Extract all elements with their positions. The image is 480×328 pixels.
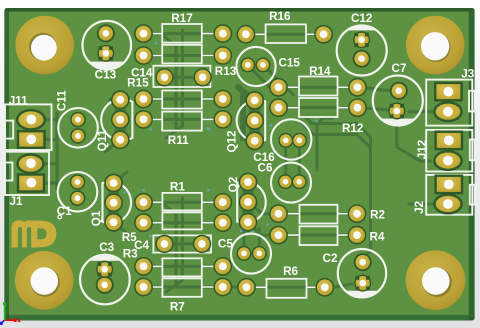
svg-text:R4: R4 (370, 230, 385, 243)
svg-text:C14: C14 (131, 66, 153, 79)
wire C16 C6 links (286, 146, 300, 176)
wire J2 stub (409, 203, 434, 206)
svg-text:R13: R13 (215, 65, 237, 78)
resistor R16 (237, 10, 334, 43)
svg-text:C4: C4 (134, 239, 149, 252)
wire Q1 pad bus (108, 183, 119, 222)
wire Q12 pad bus (249, 100, 260, 140)
svg-text:J3: J3 (461, 68, 475, 81)
svg-text:Q1: Q1 (90, 210, 103, 226)
md logo silkscreen (12, 215, 62, 247)
svg-text:C11: C11 (56, 90, 69, 111)
mounting hole top-left (15, 16, 74, 75)
capacitor C3 (electrolytic) (80, 241, 130, 304)
wire Q2 to R2 (248, 202, 279, 214)
svg-text:R2: R2 (370, 208, 385, 221)
wire R16 row (246, 33, 324, 36)
wire C15 to Q12 diagonals (247, 65, 293, 96)
wire R7 row (144, 286, 247, 289)
wire C5 links (244, 226, 259, 247)
svg-text:R11: R11 (168, 134, 189, 147)
transistor Q2 (227, 173, 266, 232)
connector J3 (426, 68, 475, 126)
svg-text:J2: J2 (413, 200, 426, 214)
wire left column vertical bus (161, 30, 183, 138)
resistor R17 (134, 12, 232, 43)
wire Q12 pour (238, 87, 254, 140)
svg-text:C1: C1 (57, 205, 72, 218)
svg-text:C13: C13 (95, 69, 117, 82)
capacitor C7 (electrolytic) (373, 62, 423, 126)
wire R12 row (279, 106, 358, 109)
svg-text:R16: R16 (269, 10, 291, 23)
resistor R2 (269, 204, 385, 223)
wire R6 to C2 (333, 284, 352, 287)
vias (123, 42, 318, 254)
svg-text:Q11: Q11 (96, 129, 109, 151)
capacitor C1 (57, 172, 98, 218)
capacitor C13 (electrolytic) (83, 21, 132, 82)
svg-text:R12: R12 (342, 122, 364, 135)
capacitor C6 (258, 162, 311, 203)
svg-text:R1: R1 (170, 180, 185, 193)
wire C7 to R12 (364, 108, 389, 110)
3d view origin axes marker (0, 302, 20, 325)
wire R6 row (247, 286, 325, 289)
wire Q2 pad bus (243, 182, 254, 222)
capacitor C16 (253, 119, 311, 164)
wire R3 row (144, 265, 223, 268)
copper traces group (42, 30, 434, 292)
wire Q11 pad bus (115, 100, 126, 140)
connector J2 (413, 175, 474, 215)
capacitor C15 (236, 47, 300, 86)
svg-text:R14: R14 (309, 65, 331, 78)
wire Q1 branch (114, 172, 128, 234)
capacitor C2 (electrolytic) (323, 249, 387, 297)
wire R4 row (279, 234, 358, 237)
wire R11 row (144, 118, 223, 121)
svg-text:C12: C12 (351, 12, 373, 25)
resistor R6 (237, 265, 334, 298)
wire R1 row (144, 201, 223, 204)
resistor R13 (134, 45, 237, 78)
wire bottom column vertical bus (161, 198, 183, 292)
connector J11 (5, 95, 52, 150)
svg-text:C2: C2 (323, 252, 338, 265)
resistor R12 (269, 98, 367, 135)
wire R12 to C2 (300, 118, 371, 259)
resistor R15 (127, 76, 232, 108)
capacitor C12 (electrolytic) (337, 12, 387, 76)
connector J12 (416, 130, 475, 172)
svg-text:J11: J11 (9, 95, 28, 108)
wire C7 to R14 (364, 88, 390, 91)
wire C7 to J12 (397, 119, 430, 161)
wire Q11 branch (105, 100, 120, 152)
svg-text:C5: C5 (218, 238, 233, 251)
svg-text:C3: C3 (99, 241, 114, 254)
wire R2 row (279, 212, 358, 215)
wire C14 link (165, 76, 203, 79)
svg-text:J1: J1 (10, 195, 24, 208)
svg-text:Q12: Q12 (226, 130, 239, 153)
mounting hole bottom-left (15, 251, 74, 310)
resistor R14 (269, 65, 367, 97)
wire R14 row (279, 86, 358, 89)
capacitor C5 (218, 234, 271, 274)
transistor Q12 (226, 91, 266, 153)
wire mid vertical (317, 118, 332, 170)
svg-text:J12: J12 (416, 139, 429, 159)
capacitor C4 (134, 235, 211, 253)
wire R17 row (144, 32, 223, 35)
svg-text:C15: C15 (278, 56, 300, 69)
svg-text:C7: C7 (392, 62, 407, 75)
resistor R7 (134, 278, 232, 314)
resistor R5 (122, 212, 232, 244)
transistor Q1 (90, 174, 131, 232)
mounting hole top-right (406, 16, 465, 75)
capacitor C14 (131, 66, 212, 87)
capacitor C11 (56, 90, 98, 148)
wire J3 stub (409, 110, 434, 113)
svg-text:R17: R17 (171, 12, 192, 25)
svg-text:R6: R6 (283, 265, 298, 278)
resistor R4 (269, 226, 385, 245)
connector J1 (5, 152, 49, 208)
svg-text:C6: C6 (258, 162, 273, 175)
wire Q2 to R4 (248, 222, 279, 235)
mounting hole bottom-right (406, 250, 466, 310)
svg-text:Q2: Q2 (227, 176, 240, 192)
wire C4 link (165, 242, 203, 245)
resistor R11 (134, 110, 232, 147)
resistor R1 (134, 180, 232, 211)
resistor R3 (123, 248, 232, 277)
wire J11 J1 bus (42, 113, 57, 189)
wire R5 row (144, 221, 223, 224)
transistor Q11 (96, 90, 133, 151)
wire R13 row (144, 54, 223, 57)
wire R15 row (144, 98, 223, 101)
svg-text:R7: R7 (170, 301, 185, 314)
